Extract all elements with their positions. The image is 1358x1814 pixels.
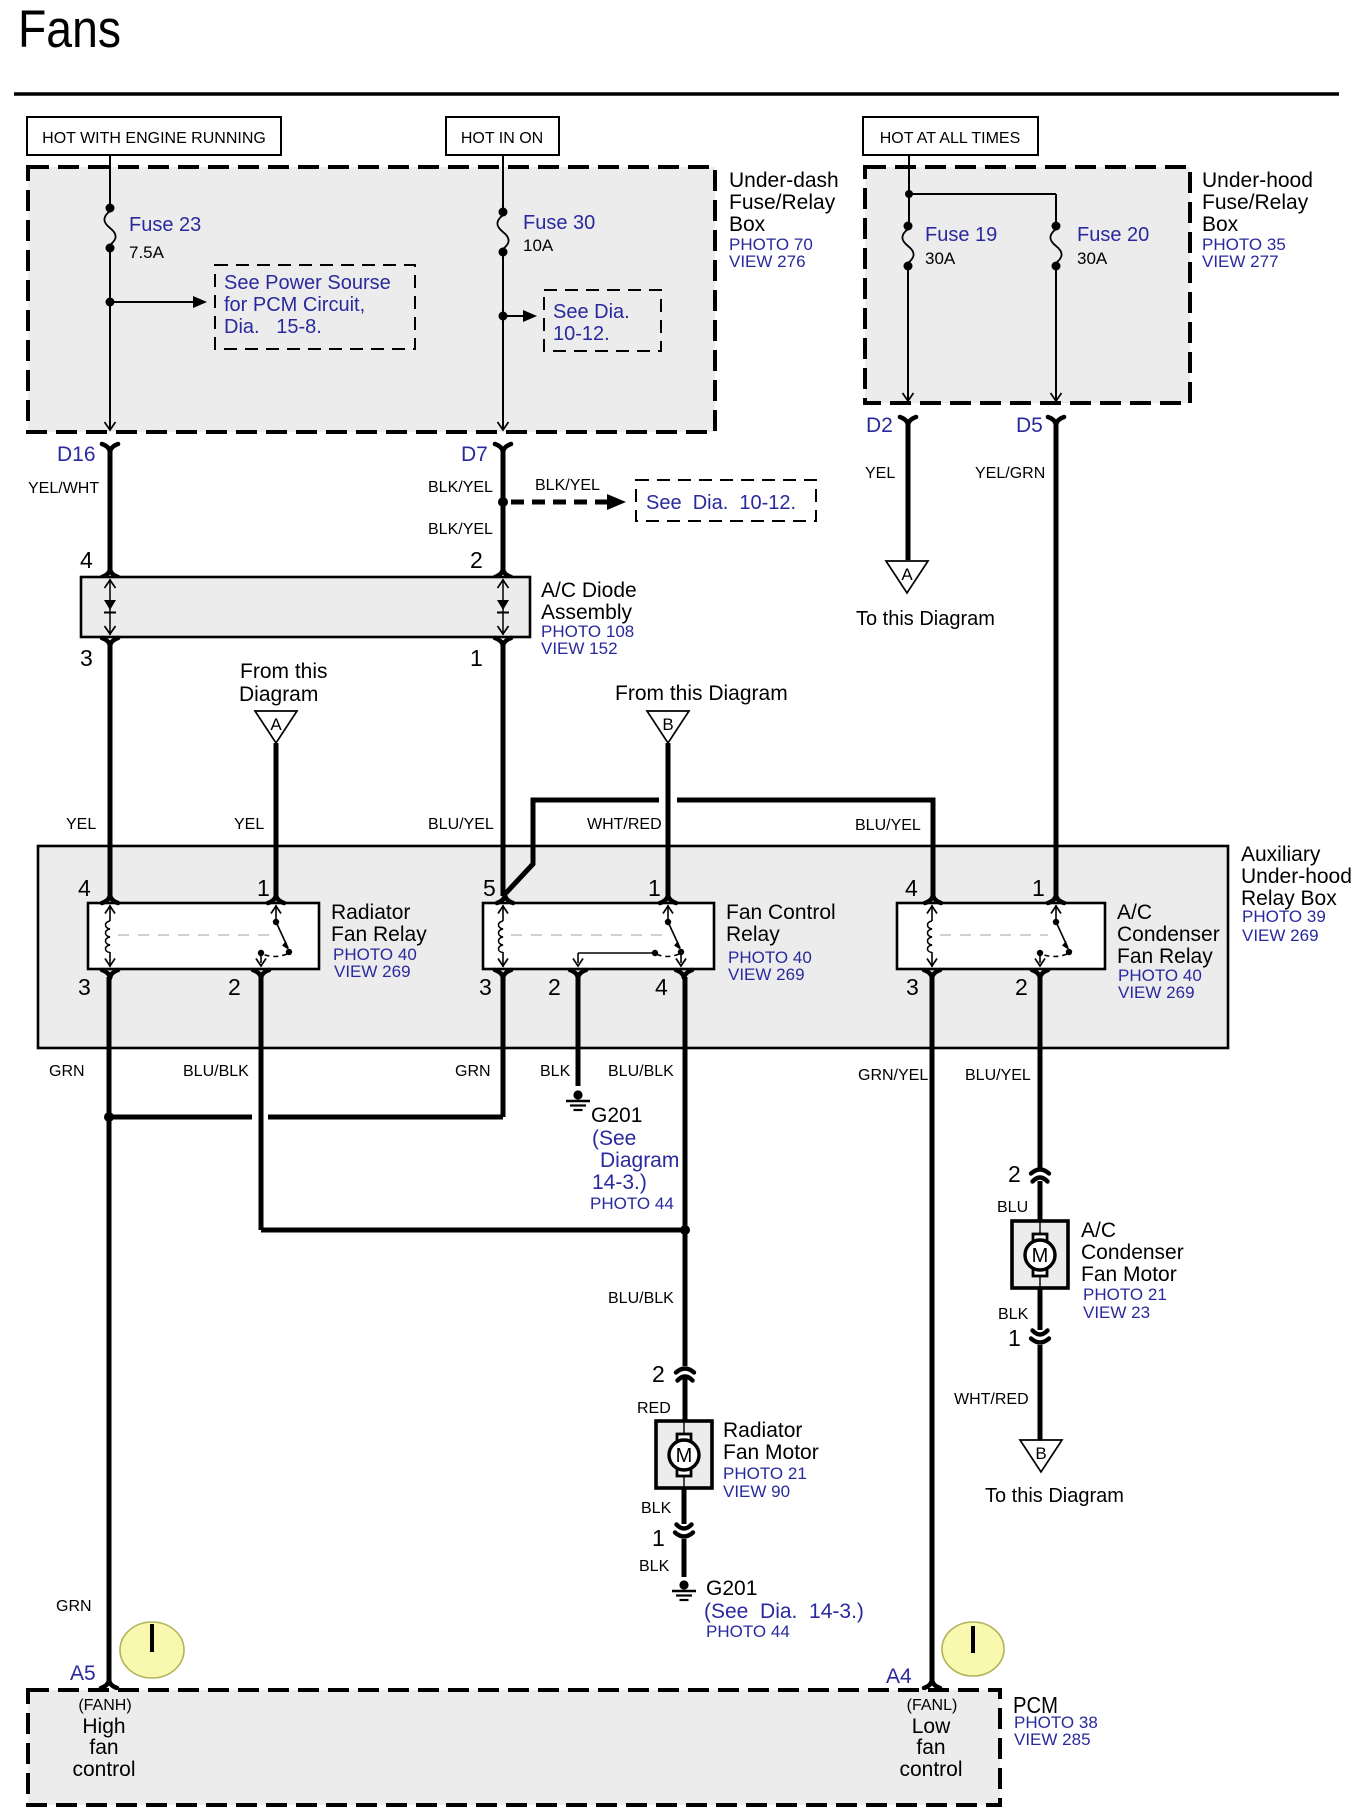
- svg-text:To this Diagram: To this Diagram: [856, 608, 995, 630]
- note See Power Sourse for PCM Circuit: [215, 265, 415, 349]
- label HOT AT ALL TIMES: [863, 117, 1038, 155]
- svg-text:A5: A5: [70, 1662, 96, 1685]
- svg-text:VIEW 269: VIEW 269: [1118, 983, 1195, 1002]
- wire YEL/WHT D16 to diode pin 4: [28, 450, 110, 570]
- node junction Fuse 30 branch: [499, 312, 508, 321]
- label HOT IN ON: [446, 117, 559, 155]
- pin 1 (A/C condenser fan relay): [1032, 875, 1064, 903]
- connector 2 (radiator fan motor): [652, 1361, 694, 1387]
- svg-text:D2: D2: [866, 414, 893, 437]
- connector 1 (radiator fan motor): [652, 1525, 693, 1552]
- wire YEL/GRN D5 to A/C condenser relay pin 1: [975, 423, 1056, 896]
- wire from HOT WITH ENGINE RUNNING to Fuse 23: [109, 155, 111, 206]
- label (FANH) High fan control: [72, 1697, 135, 1781]
- wire BLU/YEL diode pin 1 to fan control relay pin 5: [428, 645, 503, 896]
- indicator lamp I (high fan): [120, 1622, 184, 1678]
- pin 4 (diode assembly): [80, 547, 118, 577]
- fuse Fuse 20 30A: [1050, 222, 1149, 271]
- pin 2 (diode assembly): [470, 547, 511, 577]
- svg-text:VIEW 269: VIEW 269: [1242, 926, 1319, 945]
- svg-text:See Power Sourse: See Power Sourse: [224, 272, 391, 294]
- relay A/C Condenser Fan Relay: [897, 903, 1105, 969]
- connector D5: [1016, 414, 1064, 437]
- fuse Fuse 30 10A: [497, 208, 595, 257]
- svg-text:A/C: A/C: [1117, 901, 1152, 924]
- label Under-dash Fuse/Relay Box: [729, 169, 839, 271]
- svg-text:(See Dia. 14-3.): (See Dia. 14-3.): [704, 1600, 864, 1623]
- wire arrow to PCM power note: [110, 301, 198, 303]
- svg-text:G201: G201: [591, 1104, 642, 1127]
- svg-text:From this Diagram: From this Diagram: [615, 682, 788, 705]
- relay Fan Control Relay: [483, 903, 714, 969]
- svg-text:GRN: GRN: [56, 1598, 92, 1615]
- note See Dia. 10-12. (right of D7): [636, 480, 816, 521]
- pin 4 (radiator fan relay): [78, 875, 118, 903]
- svg-text:1: 1: [257, 875, 270, 901]
- under-dash fuse/relay box: [28, 167, 715, 432]
- svg-text:To this Diagram: To this Diagram: [985, 1485, 1124, 1507]
- indicator lamp I (low fan): [942, 1622, 1004, 1676]
- svg-text:fan: fan: [89, 1736, 118, 1759]
- wire BLK connector 1 to ground: [639, 1539, 684, 1577]
- wire YEL D2 to triangle A: [865, 423, 908, 560]
- wire WHT/RED triangle B to fan control relay pin 1: [587, 743, 668, 896]
- svg-text:10A: 10A: [523, 236, 554, 255]
- label A/C Condenser Fan Relay: [1117, 901, 1220, 1002]
- wire RED connector to radiator fan motor: [637, 1378, 685, 1421]
- wire below Fuse 23: [109, 250, 111, 430]
- wire below Fuse 19: [907, 268, 909, 401]
- svg-text:WHT/RED: WHT/RED: [587, 816, 662, 833]
- svg-text:control: control: [899, 1758, 962, 1781]
- pin 3 (diode assembly): [80, 638, 118, 671]
- connector D7: [461, 443, 511, 466]
- svg-text:BLK: BLK: [641, 1500, 672, 1517]
- motor A/C Condenser Fan Motor: [1012, 1221, 1068, 1288]
- svg-text:HOT AT ALL TIMES: HOT AT ALL TIMES: [880, 130, 1021, 147]
- svg-text:Fuse 23: Fuse 23: [129, 214, 201, 236]
- svg-text:30A: 30A: [1077, 249, 1108, 268]
- svg-text:4: 4: [655, 974, 668, 1000]
- svg-text:BLU/YEL: BLU/YEL: [965, 1067, 1031, 1084]
- svg-text:Auxiliary: Auxiliary: [1241, 843, 1321, 866]
- svg-text:5: 5: [483, 875, 496, 901]
- svg-text:YEL: YEL: [66, 816, 96, 833]
- node A (To this Diagram): [856, 561, 995, 630]
- fuse Fuse 23 7.5A: [104, 204, 201, 263]
- svg-text:B: B: [662, 715, 673, 734]
- node B (From this Diagram): [615, 682, 788, 743]
- node junction BLU/BLK: [680, 1225, 690, 1235]
- svg-text:M: M: [676, 1445, 693, 1467]
- svg-text:From this: From this: [240, 660, 328, 683]
- svg-text:PHOTO 21: PHOTO 21: [1083, 1285, 1167, 1304]
- svg-text:YEL: YEL: [865, 465, 895, 482]
- svg-text:(FANH): (FANH): [78, 1697, 131, 1714]
- label Fan Control Relay: [726, 901, 836, 984]
- label A/C Condenser Fan Motor: [1081, 1219, 1184, 1322]
- svg-text:Dia. 15-8.: Dia. 15-8.: [224, 316, 322, 338]
- wire BLU/YEL A/C condenser relay pin 2: [965, 977, 1040, 1168]
- svg-text:GRN/YEL: GRN/YEL: [858, 1067, 928, 1084]
- svg-text:A: A: [270, 715, 282, 734]
- svg-text:Fuse 20: Fuse 20: [1077, 224, 1149, 246]
- connector A4: [886, 1665, 940, 1688]
- svg-text:Box: Box: [729, 213, 766, 236]
- svg-text:BLK: BLK: [639, 1558, 670, 1575]
- wire BLK fan control relay pin 2 to ground: [540, 977, 578, 1086]
- svg-text:Fans: Fans: [18, 0, 121, 59]
- svg-text:Condenser: Condenser: [1117, 923, 1220, 946]
- svg-text:YEL/GRN: YEL/GRN: [975, 465, 1045, 482]
- svg-text:PHOTO 21: PHOTO 21: [723, 1464, 807, 1483]
- node junction GRN: [104, 1112, 114, 1122]
- svg-text:VIEW 269: VIEW 269: [728, 965, 805, 984]
- svg-text:BLU: BLU: [997, 1199, 1028, 1216]
- wire below Fuse 20: [1055, 268, 1057, 401]
- svg-text:Under-hood: Under-hood: [1241, 865, 1352, 888]
- svg-text:Radiator: Radiator: [723, 1419, 802, 1442]
- svg-text:PHOTO 44: PHOTO 44: [590, 1194, 674, 1213]
- svg-text:Under-dash: Under-dash: [729, 169, 839, 192]
- pin 2 (A/C condenser fan relay): [1015, 970, 1048, 1000]
- svg-text:7.5A: 7.5A: [129, 243, 165, 262]
- svg-text:Fan Control: Fan Control: [726, 901, 836, 924]
- node junction Fuse 23 branch: [106, 298, 115, 307]
- svg-text:3: 3: [906, 974, 919, 1000]
- wire BLU/BLK radiator relay pin 2: [183, 977, 685, 1230]
- svg-text:3: 3: [80, 645, 93, 671]
- A/C Diode Assembly box: [81, 577, 530, 637]
- pin 3 (A/C condenser fan relay): [906, 970, 940, 1000]
- svg-text:14-3.): 14-3.): [592, 1171, 647, 1194]
- svg-text:10-12.: 10-12.: [553, 323, 610, 345]
- svg-text:2: 2: [548, 974, 561, 1000]
- wire from HOT IN ON to Fuse 30: [502, 155, 504, 210]
- label A/C Diode Assembly: [541, 579, 637, 658]
- svg-text:4: 4: [905, 875, 918, 901]
- svg-text:4: 4: [80, 547, 93, 573]
- svg-text:Under-hood: Under-hood: [1202, 169, 1313, 192]
- svg-text:GRN: GRN: [455, 1063, 491, 1080]
- svg-text:30A: 30A: [925, 249, 956, 268]
- svg-text:WHT/RED: WHT/RED: [954, 1391, 1029, 1408]
- svg-text:Diagram: Diagram: [600, 1149, 679, 1172]
- svg-text:fan: fan: [916, 1736, 945, 1759]
- connector 1 (A/C condenser fan motor): [1008, 1325, 1049, 1351]
- pin 4 (A/C condenser fan relay): [905, 875, 941, 903]
- pin 2 (radiator fan relay): [228, 970, 269, 1000]
- fuse Fuse 19 30A: [902, 222, 997, 271]
- connector 2 (A/C condenser fan motor): [1008, 1161, 1049, 1187]
- svg-text:4: 4: [78, 875, 91, 901]
- svg-text:Assembly: Assembly: [541, 601, 633, 624]
- connector A5: [70, 1662, 117, 1688]
- wire WHT/RED connector 1 to triangle B: [954, 1345, 1040, 1440]
- wire from HOT AT ALL TIMES into under-hood box: [908, 155, 910, 195]
- node B (To this Diagram): [985, 1440, 1124, 1507]
- svg-text:BLU/BLK: BLU/BLK: [608, 1063, 674, 1080]
- relay Radiator Fan Relay: [88, 903, 319, 969]
- svg-text:VIEW 90: VIEW 90: [723, 1482, 790, 1501]
- svg-text:YEL/WHT: YEL/WHT: [28, 480, 99, 497]
- wire BLK/YEL D7 to diode pin 2: [428, 450, 503, 570]
- wire GRN/YEL A/C condenser relay pin 3 to PCM A4: [858, 977, 932, 1682]
- pin 1 (diode assembly): [470, 638, 511, 671]
- svg-text:BLU/YEL: BLU/YEL: [855, 817, 921, 834]
- svg-text:Fuse/Relay: Fuse/Relay: [1202, 191, 1309, 214]
- svg-text:VIEW 23: VIEW 23: [1083, 1303, 1150, 1322]
- wire BLU/YEL branch to A/C condenser relay pin 4: [506, 800, 933, 896]
- svg-text:2: 2: [228, 974, 241, 1000]
- svg-text:Fan Motor: Fan Motor: [723, 1441, 819, 1464]
- svg-text:G201: G201: [706, 1577, 757, 1600]
- svg-text:Relay: Relay: [726, 923, 780, 946]
- pin 1 (fan control relay): [648, 875, 676, 903]
- svg-text:Radiator: Radiator: [331, 901, 410, 924]
- svg-text:D7: D7: [461, 443, 488, 466]
- svg-text:2: 2: [1015, 974, 1028, 1000]
- under-hood fuse/relay box: [865, 167, 1190, 403]
- ground G201 (radiator fan motor): [672, 1577, 864, 1641]
- label Radiator Fan Relay: [331, 901, 427, 981]
- svg-text:2: 2: [652, 1361, 665, 1387]
- svg-text:A/C: A/C: [1081, 1219, 1116, 1242]
- wire BLK radiator fan motor to connector 1: [641, 1488, 684, 1524]
- label (FANL) Low fan control: [899, 1697, 962, 1781]
- wire GRN radiator relay pin 3 to PCM A5: [49, 977, 109, 1682]
- note See Dia. 10-12. (under-dash): [544, 290, 661, 351]
- svg-text:A: A: [901, 565, 913, 584]
- pin 3 (radiator fan relay): [78, 970, 118, 1000]
- label HOT WITH ENGINE RUNNING: [27, 117, 281, 155]
- pin 1 (radiator fan relay): [257, 875, 284, 903]
- svg-text:Fan Relay: Fan Relay: [1117, 945, 1213, 968]
- svg-text:Box: Box: [1202, 213, 1239, 236]
- diode right (A/C diode assembly): [497, 579, 509, 635]
- svg-text:BLU/YEL: BLU/YEL: [428, 816, 494, 833]
- ground G201 (fan control relay): [566, 1090, 679, 1213]
- svg-text:RED: RED: [637, 1400, 671, 1417]
- label Radiator Fan Motor: [723, 1419, 819, 1501]
- svg-text:BLK: BLK: [998, 1306, 1029, 1323]
- motor Radiator Fan Motor: [656, 1421, 712, 1488]
- svg-text:Fuse 30: Fuse 30: [523, 212, 595, 234]
- title rule: [14, 92, 1339, 96]
- svg-text:A/C Diode: A/C Diode: [541, 579, 637, 602]
- svg-text:M: M: [1032, 1245, 1049, 1267]
- pin 4 (fan control relay): [655, 970, 692, 1000]
- wire YEL diode pin 3 to radiator relay pin 4: [66, 645, 110, 896]
- svg-text:See Dia.: See Dia.: [553, 301, 630, 323]
- svg-text:D5: D5: [1016, 414, 1043, 437]
- wire tee to Fuse 20: [908, 193, 1056, 195]
- svg-text:A4: A4: [886, 1665, 912, 1688]
- svg-text:D16: D16: [57, 443, 96, 466]
- svg-text:B: B: [1035, 1444, 1046, 1463]
- PCM box: [28, 1690, 1000, 1805]
- wire YEL triangle A to relay pin 1: [234, 743, 276, 896]
- svg-text:PHOTO 39: PHOTO 39: [1242, 907, 1326, 926]
- label Under-hood Fuse/Relay Box: [1202, 169, 1313, 271]
- svg-text:(FANL): (FANL): [907, 1697, 958, 1714]
- svg-text:VIEW 269: VIEW 269: [334, 962, 411, 981]
- svg-text:Diagram: Diagram: [239, 683, 318, 706]
- svg-text:3: 3: [78, 974, 91, 1000]
- wire GRN horizontal to fan control relay pin 3: [109, 977, 503, 1117]
- node junction tee: [905, 190, 913, 198]
- wire below Fuse 30: [502, 254, 504, 430]
- diode left (A/C diode assembly): [104, 579, 116, 635]
- svg-text:BLK/YEL: BLK/YEL: [428, 521, 493, 538]
- wire arrow to See Dia 10-12 note: [503, 315, 528, 317]
- node A (From this Diagram): [239, 660, 328, 743]
- svg-text:High: High: [82, 1715, 125, 1738]
- svg-text:GRN: GRN: [49, 1063, 85, 1080]
- svg-text:VIEW 285: VIEW 285: [1014, 1730, 1091, 1749]
- node junction BLK/YEL branch: [498, 497, 508, 507]
- wire BLK A/C condenser fan motor to connector 1: [998, 1288, 1040, 1330]
- svg-text:3: 3: [479, 974, 492, 1000]
- svg-text:1: 1: [648, 875, 661, 901]
- svg-text:1: 1: [1032, 875, 1045, 901]
- connector D2: [866, 414, 916, 437]
- svg-text:control: control: [72, 1758, 135, 1781]
- svg-text:PHOTO 44: PHOTO 44: [706, 1622, 790, 1641]
- svg-text:VIEW 152: VIEW 152: [541, 639, 618, 658]
- wire dashed BLK/YEL arrow to See Dia 10-12: [511, 477, 626, 510]
- svg-text:1: 1: [652, 1525, 665, 1551]
- svg-text:Low: Low: [912, 1715, 951, 1738]
- svg-text:Fan Relay: Fan Relay: [331, 923, 427, 946]
- svg-text:BLK: BLK: [540, 1063, 571, 1080]
- svg-text:1: 1: [470, 645, 483, 671]
- svg-text:VIEW 277: VIEW 277: [1202, 252, 1279, 271]
- svg-text:See Dia. 10-12.: See Dia. 10-12.: [646, 492, 796, 514]
- svg-text:YEL: YEL: [234, 816, 264, 833]
- svg-text:BLU/BLK: BLU/BLK: [608, 1290, 674, 1307]
- svg-text:Condenser: Condenser: [1081, 1241, 1184, 1264]
- svg-text:HOT WITH ENGINE RUNNING: HOT WITH ENGINE RUNNING: [42, 130, 266, 147]
- svg-text:Fuse 19: Fuse 19: [925, 224, 997, 246]
- label PCM: [1013, 1692, 1098, 1749]
- svg-text:1: 1: [1008, 1325, 1021, 1351]
- svg-text:BLK/YEL: BLK/YEL: [428, 479, 493, 496]
- svg-text:HOT IN ON: HOT IN ON: [461, 130, 543, 147]
- svg-text:(See: (See: [592, 1127, 636, 1150]
- pin 3 (fan control relay): [479, 970, 511, 1000]
- svg-text:Fan Motor: Fan Motor: [1081, 1263, 1177, 1286]
- wire BLU connector to A/C condenser fan motor: [997, 1181, 1040, 1221]
- svg-text:2: 2: [1008, 1161, 1021, 1187]
- pin 2 (fan control relay): [548, 970, 586, 1000]
- label Auxiliary Under-hood Relay Box: [1241, 843, 1352, 945]
- svg-text:Fuse/Relay: Fuse/Relay: [729, 191, 836, 214]
- svg-text:BLU/BLK: BLU/BLK: [183, 1063, 249, 1080]
- svg-text:VIEW 276: VIEW 276: [729, 252, 806, 271]
- connector D16: [57, 443, 118, 466]
- svg-text:for PCM Circuit,: for PCM Circuit,: [224, 294, 365, 316]
- wire BLU/BLK fan control relay pin 4 to radiator fan motor: [608, 977, 685, 1366]
- pin 5 (fan control relay): [483, 875, 513, 903]
- svg-text:BLK/YEL: BLK/YEL: [535, 477, 600, 494]
- svg-text:2: 2: [470, 547, 483, 573]
- auxiliary under-hood relay box: [38, 846, 1228, 1048]
